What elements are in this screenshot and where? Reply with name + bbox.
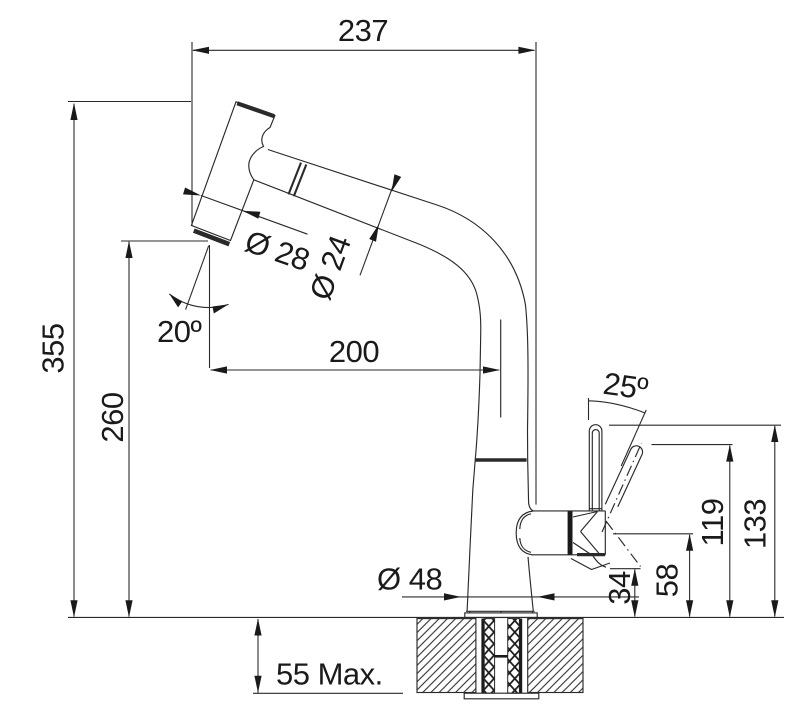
arrow dia24 lower — [369, 224, 379, 242]
label 58 — [650, 564, 685, 597]
svg-text:355: 355 — [36, 323, 71, 373]
washer below counter — [464, 693, 539, 699]
spray head top cap (thick) — [237, 103, 274, 116]
label dia 24 — [303, 231, 358, 304]
arrow 237 left — [192, 47, 209, 54]
countertop left block — [417, 619, 476, 693]
arrow 58 bottom — [686, 600, 693, 617]
arrow 133 top — [771, 425, 778, 442]
arrow 58 top — [686, 534, 693, 551]
dim 260 top extension — [121, 240, 208, 242]
dim 34 line — [634, 570, 636, 617]
arrow 260 bottom — [125, 600, 132, 617]
svg-text:133: 133 — [738, 499, 773, 549]
label 200 — [329, 334, 379, 369]
svg-text:55 Max.: 55 Max. — [276, 657, 383, 692]
neck joint band (thick) — [475, 458, 526, 461]
20 deg slanted ray — [186, 246, 209, 310]
arrow 20deg arc right — [213, 304, 229, 313]
dim 55 bottom extension — [253, 692, 403, 694]
label 133 — [738, 499, 773, 549]
svg-text:Ø 48: Ø 48 — [377, 562, 442, 597]
label 25 deg — [601, 366, 650, 407]
shank left wall (dark) — [481, 619, 484, 694]
dim 58 line — [689, 535, 691, 617]
arrow dia28 lower — [242, 211, 260, 219]
25 deg left tick — [588, 398, 590, 420]
base step line — [466, 610, 535, 612]
arrow 34 top — [631, 569, 638, 586]
countertop right block — [528, 619, 583, 693]
svg-text:200: 200 — [329, 334, 379, 369]
svg-text:25º: 25º — [601, 366, 650, 407]
arrow 20deg arc left — [169, 294, 182, 308]
arrow dia48 left — [444, 593, 461, 600]
arrow 260 top — [125, 241, 132, 258]
label 237 — [338, 13, 388, 48]
lower body right edge — [528, 557, 533, 612]
dim 260 line — [128, 242, 130, 617]
label 260 — [95, 392, 130, 442]
spray head outlet face (thick) — [194, 231, 230, 245]
arrow 237 right — [518, 47, 535, 54]
svg-text:58: 58 — [650, 564, 685, 597]
arrow dia24 upper — [392, 174, 402, 192]
dia 48 line — [402, 596, 639, 598]
svg-text:237: 237 — [338, 13, 388, 48]
hose connector bar — [495, 655, 508, 658]
dim 133 top extension — [609, 424, 781, 426]
svg-text:34: 34 — [602, 571, 637, 605]
dim 58 top extension — [613, 533, 693, 535]
svg-text:260: 260 — [95, 392, 130, 442]
label dia 28 — [241, 224, 314, 278]
valve housing body — [533, 511, 605, 555]
dim 237 extension right — [535, 42, 537, 505]
svg-text:Ø 24: Ø 24 — [303, 231, 358, 304]
25 deg arc — [588, 401, 645, 413]
valve housing left cap — [516, 511, 533, 555]
dim 119 line — [729, 446, 731, 617]
label 55 Max — [276, 657, 383, 692]
arrow 355 bottom — [70, 600, 77, 617]
label 119 — [695, 499, 730, 547]
svg-text:Ø 28: Ø 28 — [241, 224, 314, 278]
dim 237 line — [193, 49, 534, 51]
dia 28 line — [201, 196, 308, 235]
arrow 34 bottom — [631, 600, 638, 617]
arrow 55 bottom — [254, 676, 261, 693]
base flange — [465, 611, 537, 617]
arrow 200 right — [483, 366, 500, 373]
arrow 133 bottom — [771, 600, 778, 617]
ghost handle base lines — [571, 556, 610, 570]
lever ghost tilted 25 deg — [605, 446, 642, 507]
shank right wall (dark) — [519, 619, 522, 694]
arrow 355 top — [70, 103, 77, 120]
head tip vertical reference — [209, 245, 211, 368]
dim 200 line — [211, 369, 500, 371]
dim 55 line — [257, 619, 259, 693]
label 355 — [36, 323, 71, 373]
ghost axis dash-dot lower — [606, 521, 641, 567]
dim 355 top extension — [68, 101, 191, 103]
25 deg right tick — [621, 410, 646, 466]
20 deg arc — [169, 294, 228, 308]
arrow 55 top — [254, 619, 261, 636]
tube joint tick lines — [289, 163, 307, 197]
valve seam band (dark) — [568, 511, 573, 554]
arrow 119 top — [726, 445, 733, 462]
shank right thread crosshatch — [508, 619, 520, 694]
neck centerline segment — [500, 320, 502, 418]
spout tube upper edge + elbow outer + neck right edge — [268, 150, 534, 512]
svg-text:119: 119 — [695, 499, 730, 547]
dim 133 line — [774, 426, 776, 617]
dim 355 line — [73, 104, 75, 617]
svg-text:20º: 20º — [157, 314, 201, 349]
ground line — [68, 616, 784, 618]
arrow 200 left — [210, 366, 227, 373]
shank left thread crosshatch — [484, 619, 494, 694]
handle mount facets — [573, 512, 600, 555]
arrow dia28 upper — [183, 188, 201, 196]
ghost axis dash-dot upper — [602, 443, 642, 532]
dim 237 extension left — [191, 42, 193, 226]
label 20 deg — [157, 314, 201, 349]
lever upright — [589, 425, 602, 511]
dia 24 line — [360, 177, 396, 275]
dim 34 top extension — [610, 568, 641, 570]
spout tube lower edge + elbow inner + neck left edge — [254, 180, 481, 612]
spray head body — [191, 102, 275, 241]
label 34 — [602, 571, 637, 605]
arrow dia48 right — [538, 593, 555, 600]
arrow 119 bottom — [726, 600, 733, 617]
dim 119 top extension — [652, 444, 733, 446]
label dia 48 — [377, 562, 442, 597]
